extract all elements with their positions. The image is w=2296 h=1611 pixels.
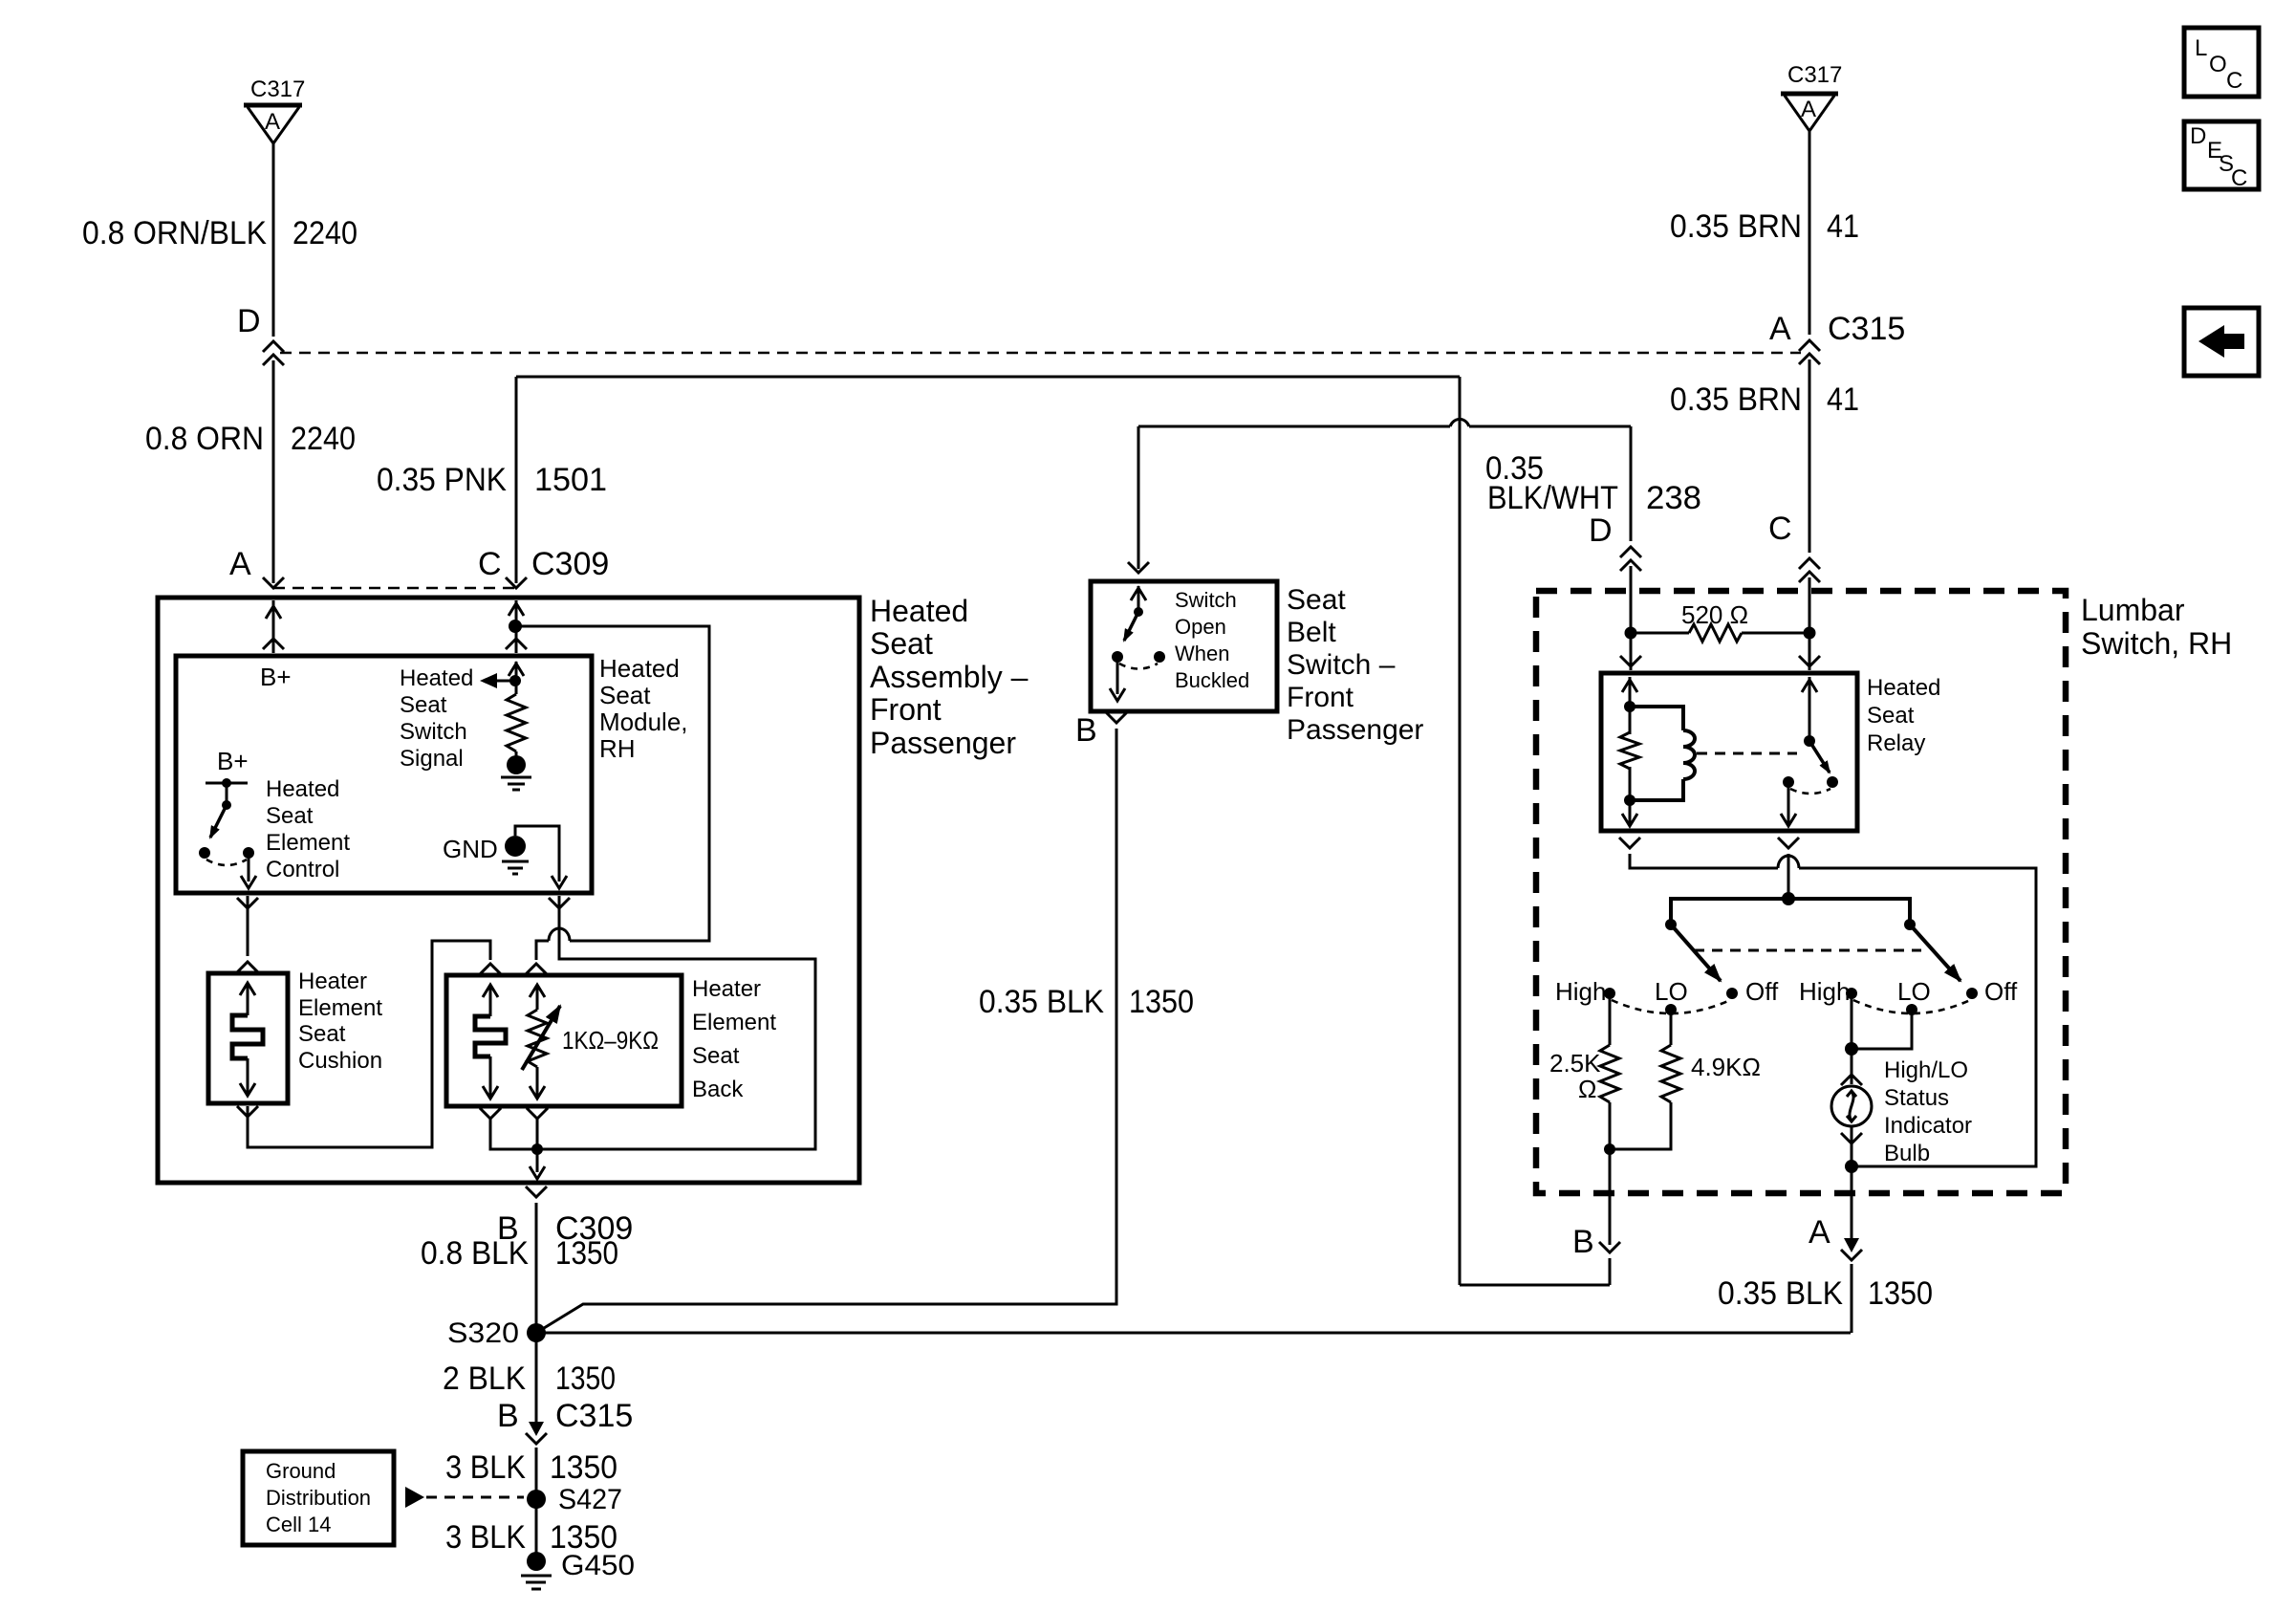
svg-text:Control: Control (266, 857, 339, 882)
svg-text:C309: C309 (531, 546, 609, 582)
svg-text:3 BLK: 3 BLK (445, 1449, 526, 1486)
svg-text:Module,: Module, (599, 708, 688, 736)
svg-text:238: 238 (1646, 480, 1701, 516)
svg-text:Off: Off (1745, 977, 1779, 1006)
svg-text:2240: 2240 (292, 215, 357, 251)
svg-text:B+: B+ (217, 747, 249, 775)
svg-text:Switch, RH: Switch, RH (2081, 626, 2232, 661)
svg-text:High: High (1555, 977, 1606, 1006)
svg-text:Cell 14: Cell 14 (266, 1513, 331, 1536)
svg-text:C: C (2226, 68, 2242, 94)
svg-text:Seat: Seat (870, 626, 933, 661)
svg-text:Ω: Ω (1578, 1075, 1596, 1103)
svg-text:0.35 PNK: 0.35 PNK (377, 462, 507, 498)
svg-text:0.8 BLK: 0.8 BLK (421, 1235, 529, 1272)
svg-text:Ground: Ground (266, 1459, 336, 1483)
svg-text:Status: Status (1884, 1085, 1949, 1111)
svg-text:C317: C317 (250, 76, 305, 102)
svg-text:Seat: Seat (1867, 703, 1915, 729)
svg-text:Front: Front (1287, 682, 1354, 713)
svg-text:B+: B+ (260, 663, 292, 691)
svg-text:Element: Element (298, 995, 382, 1021)
svg-text:1350: 1350 (555, 1235, 618, 1272)
svg-text:Seat: Seat (599, 681, 651, 709)
svg-text:C: C (1768, 511, 1792, 547)
svg-text:Relay: Relay (1867, 730, 1925, 756)
svg-text:520 Ω: 520 Ω (1681, 600, 1748, 629)
svg-text:Passenger: Passenger (870, 726, 1016, 760)
svg-text:3 BLK: 3 BLK (445, 1519, 526, 1556)
svg-text:Seat: Seat (692, 1043, 740, 1069)
svg-text:1350: 1350 (1129, 984, 1194, 1020)
svg-text:Bulb: Bulb (1884, 1141, 1930, 1166)
svg-text:C: C (2231, 165, 2247, 191)
svg-text:Switch –: Switch – (1287, 649, 1396, 681)
svg-text:1350: 1350 (1868, 1275, 1933, 1312)
svg-text:Back: Back (692, 1077, 744, 1102)
svg-text:High/LO: High/LO (1884, 1057, 1968, 1083)
svg-text:A: A (229, 546, 251, 582)
svg-text:Heater: Heater (692, 976, 761, 1002)
svg-text:O: O (2209, 52, 2227, 77)
svg-text:Seat: Seat (298, 1021, 346, 1047)
svg-text:D: D (1589, 512, 1613, 549)
svg-text:C: C (478, 546, 502, 582)
svg-text:Seat: Seat (266, 803, 314, 829)
svg-text:GND: GND (443, 835, 498, 863)
svg-text:G450: G450 (561, 1550, 635, 1581)
svg-text:2.5K: 2.5K (1549, 1049, 1601, 1078)
svg-text:A: A (1801, 97, 1816, 122)
svg-text:41: 41 (1827, 381, 1859, 418)
svg-text:Belt: Belt (1287, 617, 1336, 648)
svg-text:D: D (237, 303, 261, 339)
svg-text:Heated: Heated (1867, 675, 1940, 701)
svg-text:Cushion: Cushion (298, 1048, 382, 1074)
svg-text:Heated: Heated (599, 654, 680, 683)
svg-text:Heated: Heated (266, 776, 339, 802)
svg-text:LO: LO (1897, 977, 1931, 1006)
svg-text:Switch: Switch (1175, 588, 1237, 612)
svg-text:A: A (265, 109, 280, 135)
svg-text:LO: LO (1655, 977, 1688, 1006)
svg-text:0.8 ORN/BLK: 0.8 ORN/BLK (82, 215, 267, 251)
svg-text:Buckled: Buckled (1175, 668, 1249, 692)
svg-text:A: A (1809, 1214, 1830, 1251)
svg-text:A: A (1769, 311, 1791, 347)
svg-text:2240: 2240 (291, 421, 356, 457)
svg-text:Off: Off (1984, 977, 2018, 1006)
svg-text:2 BLK: 2 BLK (443, 1361, 526, 1397)
svg-text:S427: S427 (558, 1484, 622, 1515)
svg-text:1501: 1501 (534, 462, 607, 498)
svg-text:Front: Front (870, 692, 942, 727)
svg-text:C317: C317 (1787, 62, 1842, 88)
svg-text:Passenger: Passenger (1287, 714, 1423, 746)
svg-text:0.35 BRN: 0.35 BRN (1670, 381, 1802, 418)
svg-text:0.8 ORN: 0.8 ORN (145, 421, 264, 457)
svg-text:41: 41 (1827, 208, 1859, 245)
svg-text:4.9KΩ: 4.9KΩ (1691, 1053, 1761, 1081)
svg-text:0.35 BRN: 0.35 BRN (1670, 208, 1802, 245)
svg-text:C315: C315 (1828, 311, 1905, 347)
svg-text:BLK/WHT: BLK/WHT (1487, 480, 1618, 516)
svg-text:S320: S320 (447, 1317, 519, 1349)
svg-text:Assembly –: Assembly – (870, 660, 1029, 694)
svg-text:When: When (1175, 642, 1229, 665)
svg-text:Element: Element (266, 830, 350, 856)
svg-text:1350: 1350 (550, 1449, 617, 1486)
svg-text:Switch: Switch (400, 719, 467, 745)
svg-text:C315: C315 (555, 1398, 633, 1434)
svg-text:RH: RH (599, 734, 636, 763)
svg-text:1350: 1350 (555, 1361, 616, 1397)
svg-text:High: High (1799, 977, 1850, 1006)
svg-text:Heater: Heater (298, 969, 367, 994)
svg-text:Indicator: Indicator (1884, 1113, 1972, 1139)
svg-text:0.35 BLK: 0.35 BLK (979, 984, 1104, 1020)
svg-text:L: L (2195, 35, 2207, 61)
svg-text:0.35 BLK: 0.35 BLK (1718, 1275, 1843, 1312)
svg-text:Lumbar: Lumbar (2081, 593, 2185, 627)
svg-text:Signal: Signal (400, 746, 464, 772)
svg-text:B: B (497, 1398, 519, 1434)
svg-text:Seat: Seat (1287, 584, 1346, 616)
svg-text:1KΩ–9KΩ: 1KΩ–9KΩ (562, 1026, 659, 1055)
svg-text:Heated: Heated (870, 594, 968, 628)
svg-text:Seat: Seat (400, 692, 447, 718)
svg-text:Open: Open (1175, 615, 1226, 639)
svg-text:D: D (2190, 123, 2206, 149)
svg-text:Element: Element (692, 1010, 776, 1035)
svg-text:B: B (1572, 1224, 1594, 1260)
svg-text:B: B (1075, 712, 1097, 749)
svg-text:Heated: Heated (400, 665, 473, 691)
svg-text:Distribution: Distribution (266, 1486, 371, 1510)
